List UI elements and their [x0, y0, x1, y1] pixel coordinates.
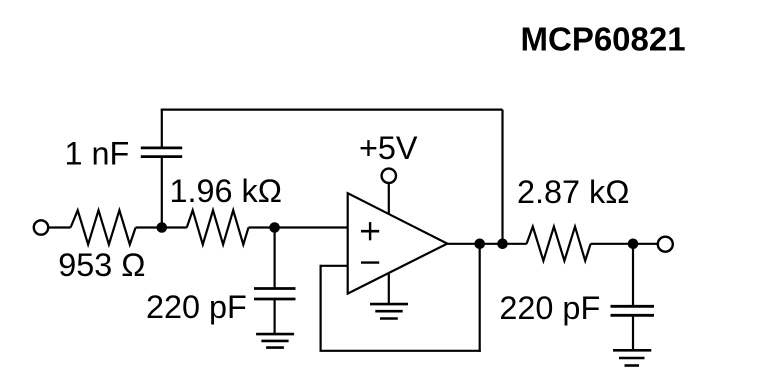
wire feedback left vertical	[320, 265, 322, 351]
wire node A up to C1	[161, 157, 163, 228]
wire R2 to op-amp non-inverting input	[249, 226, 348, 228]
wire R1 to R2 through node A	[136, 226, 187, 228]
resistor R3	[527, 227, 591, 261]
op-amp minus input marker	[361, 261, 379, 263]
wire op-amp inverting input feedback left segment	[321, 265, 348, 267]
input terminal	[34, 220, 48, 234]
svg-text:MCP60821: MCP60821	[521, 20, 686, 57]
op-amp U1 triangle	[348, 193, 448, 293]
wire feedback bottom horizontal	[320, 350, 481, 352]
wire node B down to C2	[274, 228, 276, 289]
svg-text:220 pF: 220 pF	[146, 289, 247, 325]
node C junction dot (feedback tap)	[474, 239, 485, 250]
node D junction dot (top feedback tap)	[497, 239, 508, 250]
ground symbol below op-amp	[370, 304, 408, 318]
svg-text:1.96 kΩ: 1.96 kΩ	[170, 173, 282, 209]
output terminal	[658, 237, 673, 252]
resistor R1	[71, 210, 136, 244]
svg-text:+5V: +5V	[359, 130, 418, 166]
svg-text:2.87 kΩ: 2.87 kΩ	[517, 174, 629, 210]
top feedback wire	[161, 108, 503, 110]
wire top feedback down to output node C	[501, 110, 503, 244]
wire node E down to C3	[632, 244, 634, 306]
resistor R2	[187, 210, 249, 244]
wire C1 up to top feedback wire	[161, 110, 163, 148]
wire +5V terminal to op-amp power pin	[388, 183, 390, 214]
ground symbol below C3	[613, 350, 651, 365]
svg-text:953 Ω: 953 Ω	[58, 247, 145, 283]
capacitor C1	[141, 148, 182, 157]
svg-text:1 nF: 1 nF	[65, 135, 130, 171]
wire R3 to output terminal	[591, 243, 658, 245]
node B junction dot	[269, 222, 280, 233]
capacitor C2	[254, 289, 296, 300]
svg-text:220 pF: 220 pF	[499, 290, 600, 326]
wire input terminal to R1	[49, 226, 71, 228]
node E junction dot	[628, 239, 639, 250]
capacitor C3	[611, 306, 655, 315]
wire op-amp ground pin down	[388, 273, 390, 305]
wire feedback right vertical up to output	[479, 244, 481, 352]
node A junction dot	[157, 222, 168, 233]
op-amp plus input marker	[361, 222, 379, 240]
supply terminal +5V	[382, 169, 396, 183]
ground symbol below C2	[256, 334, 294, 348]
wire C2 down to ground	[274, 299, 276, 334]
wire C3 down to ground	[632, 315, 634, 350]
wire op-amp output to R3	[447, 243, 526, 245]
